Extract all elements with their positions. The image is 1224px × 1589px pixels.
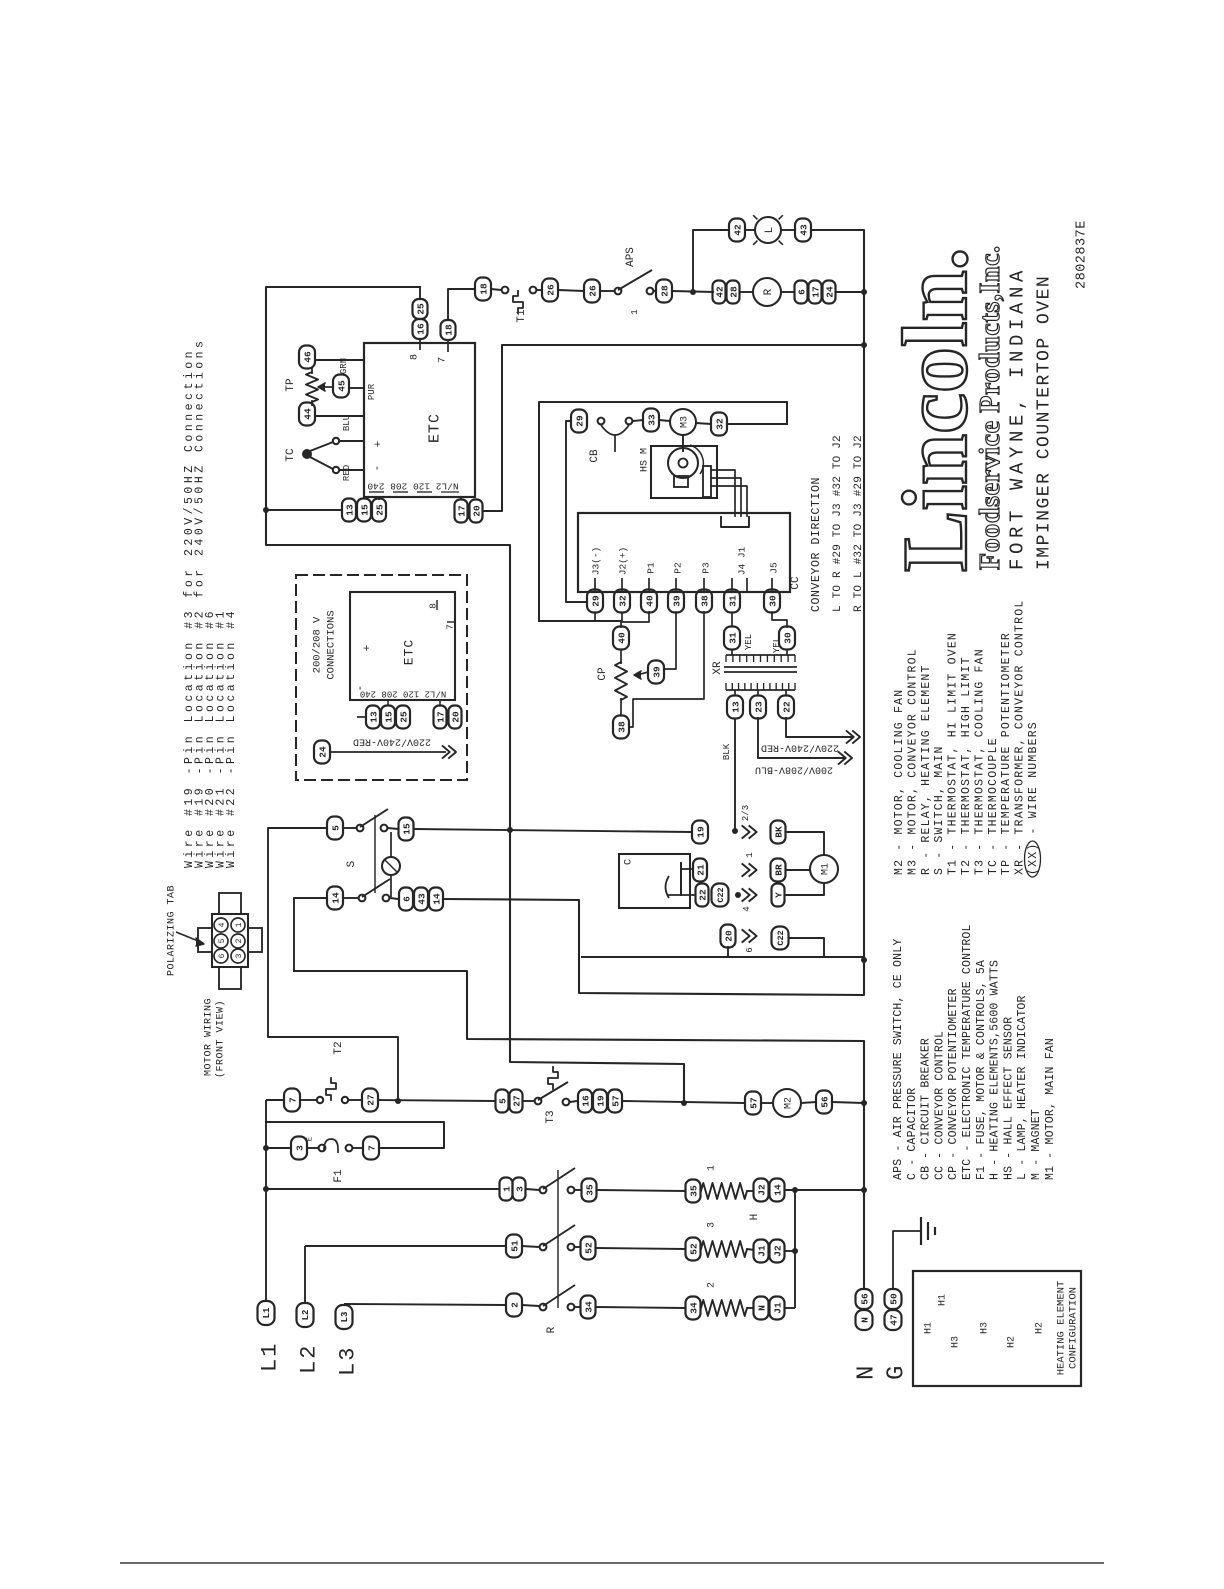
svg-text:P1: P1 (645, 562, 656, 574)
svg-text:17: 17 (435, 711, 446, 723)
svg-text:+: + (362, 645, 374, 652)
svg-text:M2 - MOTOR, COOLING FAN: M2 - MOTOR, COOLING FAN (893, 689, 906, 875)
svg-text:CP: CP (597, 667, 609, 681)
svg-text:3: 3 (707, 1222, 718, 1228)
svg-text:3: 3 (235, 953, 244, 958)
svg-text:J2: J2 (756, 1184, 767, 1196)
svg-text:GRN: GRN (339, 358, 349, 374)
svg-text:40: 40 (616, 632, 627, 644)
svg-text:200V/208V-BLU: 200V/208V-BLU (755, 763, 833, 775)
svg-text:L1: L1 (262, 1307, 272, 1318)
svg-text:20: 20 (450, 711, 461, 723)
svg-text:15: 15 (359, 504, 370, 516)
svg-text:R: R (546, 1326, 558, 1333)
svg-text:3: 3 (294, 1145, 305, 1151)
svg-text:14: 14 (772, 1184, 783, 1196)
svg-text:30: 30 (782, 632, 793, 644)
svg-text:17: 17 (456, 505, 467, 517)
svg-text:J1: J1 (756, 1245, 767, 1257)
svg-text:(FRONT VIEW): (FRONT VIEW) (215, 1000, 227, 1078)
svg-text:7: 7 (287, 1097, 298, 1103)
svg-text:N: N (756, 1305, 767, 1311)
svg-text:L TO R #29 TO J3 #32 TO J2: L TO R #29 TO J3 #32 TO J2 (832, 435, 844, 612)
svg-text:ETC: ETC (402, 639, 417, 665)
svg-text:XR - TRANSFORMER, CONVEYOR CON: XR - TRANSFORMER, CONVEYOR CONTROL (1014, 600, 1027, 875)
svg-text:H2: H2 (1007, 1336, 1018, 1348)
svg-text:RED: RED (342, 465, 352, 481)
svg-text:47: 47 (888, 1314, 899, 1326)
svg-text:ETC: ETC (426, 413, 443, 443)
svg-text:50: 50 (888, 1293, 899, 1305)
svg-text:43: 43 (416, 893, 427, 905)
svg-text:TC - THERMOCOUPLE: TC - THERMOCOUPLE (987, 737, 1000, 875)
svg-text:F1 - FUSE, MOTOR & CONTROLS,: F1 - FUSE, MOTOR & CONTROLS, 5A (975, 960, 988, 1180)
svg-text:35: 35 (584, 1184, 595, 1196)
svg-text:F1: F1 (333, 1169, 345, 1183)
svg-text:13: 13 (730, 701, 741, 713)
svg-text:BK: BK (773, 826, 784, 838)
svg-text:2: 2 (707, 1282, 718, 1288)
svg-text:39: 39 (671, 595, 682, 607)
svg-text:1: 1 (630, 309, 640, 314)
svg-text:14: 14 (330, 892, 341, 904)
svg-text:45: 45 (336, 380, 347, 392)
svg-text:34: 34 (688, 1302, 699, 1314)
svg-text:M3 - MOTOR, CONVEYOR CONTROL: M3 - MOTOR, CONVEYOR CONTROL (906, 648, 919, 875)
svg-text:42: 42 (714, 286, 725, 298)
svg-text:Y: Y (773, 892, 784, 898)
svg-text:1: 1 (501, 1186, 512, 1192)
svg-text:CC: CC (790, 576, 802, 590)
svg-text:23: 23 (753, 701, 764, 713)
svg-text:CB - CIRCUIT BREAKER: CB - CIRCUIT BREAKER (920, 1038, 933, 1180)
svg-text:L1: L1 (258, 1342, 283, 1372)
svg-text:19: 19 (695, 826, 706, 838)
svg-text:POLARIZING TAB: POLARIZING TAB (167, 885, 178, 976)
svg-text:YEL: YEL (772, 637, 782, 653)
svg-text:H3: H3 (951, 1336, 962, 1348)
svg-text:220V/240V-RED: 220V/240V-RED (353, 735, 431, 747)
svg-text:Foodservice Products,Inc.: Foodservice Products,Inc. (975, 245, 1006, 570)
svg-text:TP - TEMPERATURE POTENTIOMETER: TP - TEMPERATURE POTENTIOMETER (1000, 632, 1013, 875)
svg-text:200/208 V: 200/208 V (312, 616, 324, 673)
svg-text:P2: P2 (672, 562, 683, 574)
svg-text:L3: L3 (336, 1346, 361, 1376)
svg-text:J4 J1: J4 J1 (736, 546, 747, 575)
svg-text:M - MAGNET: M - MAGNET (1030, 1109, 1043, 1180)
svg-text:HEATING ELEMENT: HEATING ELEMENT (1056, 1281, 1068, 1376)
svg-text:P3: P3 (700, 562, 711, 574)
svg-text:YEL: YEL (744, 634, 754, 650)
svg-text:XR: XR (712, 661, 724, 675)
svg-text:N: N (859, 1317, 870, 1323)
svg-text:IMPINGER COUNTERTOP OVEN: IMPINGER COUNTERTOP OVEN (1034, 275, 1054, 570)
svg-text:19: 19 (595, 1095, 606, 1107)
svg-text:M3: M3 (680, 416, 691, 428)
svg-text:8: 8 (410, 354, 421, 360)
svg-text:7: 7 (366, 1145, 377, 1151)
svg-text:CP - CONVEYOR POTENTIOMETER: CP - CONVEYOR POTENTIOMETER (947, 988, 960, 1180)
svg-text:1: 1 (745, 852, 755, 857)
svg-text:T1 - THERMOSTAT, HI LIMIT OVEN: T1 - THERMOSTAT, HI LIMIT OVEN (947, 632, 960, 875)
svg-text:1: 1 (707, 1165, 718, 1171)
svg-text:29: 29 (590, 595, 601, 607)
svg-text:N: N (853, 1366, 880, 1380)
svg-text:R TO L #32 TO J3 #29 TO J2: R TO L #32 TO J3 #29 TO J2 (853, 435, 865, 612)
svg-text:S - SWITCH, MAIN: S - SWITCH, MAIN (933, 745, 946, 875)
svg-text:L: L (764, 227, 776, 234)
svg-text:26: 26 (545, 284, 556, 296)
svg-text:6: 6 (796, 289, 807, 295)
svg-text:27: 27 (511, 1095, 522, 1107)
svg-text:J2: J2 (772, 1245, 783, 1257)
svg-text:51: 51 (509, 1240, 520, 1252)
svg-text:J2(+): J2(+) (617, 547, 628, 576)
svg-text:43: 43 (798, 224, 809, 236)
svg-text:2802837E: 2802837E (1075, 220, 1090, 289)
svg-text:TP: TP (285, 378, 297, 392)
svg-text:M1: M1 (821, 863, 832, 875)
svg-text:22: 22 (697, 889, 708, 901)
svg-text:C22: C22 (776, 930, 786, 945)
svg-text:Wire #22 -Pin Location #4: Wire #22 -Pin Location #4 (225, 608, 238, 868)
svg-text:38: 38 (616, 721, 627, 733)
svg-text:18: 18 (443, 324, 454, 336)
svg-text:7: 7 (438, 357, 449, 363)
svg-text:24: 24 (317, 746, 328, 758)
svg-text:14: 14 (431, 893, 442, 905)
svg-text:+: + (373, 441, 385, 448)
svg-text:13: 13 (368, 711, 379, 723)
svg-text:(XX) - WIRE NUMBERS: (XX) - WIRE NUMBERS (1027, 721, 1040, 875)
svg-text:J5: J5 (768, 562, 779, 574)
svg-text:M1 - MOTOR, MAIN FAN: M1 - MOTOR, MAIN FAN (1044, 1038, 1057, 1180)
svg-text:C: C (624, 859, 635, 865)
svg-text:7: 7 (444, 624, 455, 630)
svg-text:R - RELAY, HEATING ELEMENT: R - RELAY, HEATING ELEMENT (920, 664, 933, 875)
svg-text:CONFIGURATION: CONFIGURATION (1068, 1287, 1080, 1369)
svg-text:L3: L3 (340, 1312, 350, 1323)
svg-text:BLU: BLU (342, 415, 352, 431)
svg-text:J1: J1 (772, 1302, 783, 1314)
svg-text:20: 20 (471, 505, 482, 517)
svg-text:H3: H3 (980, 1322, 991, 1334)
svg-text:E: E (306, 1137, 314, 1141)
svg-text:52: 52 (688, 1243, 699, 1255)
svg-text:21: 21 (695, 864, 706, 876)
svg-text:L - LAMP, HEATER INDICATOR: L - LAMP, HEATER INDICATOR (1016, 995, 1029, 1180)
svg-text:27: 27 (365, 1094, 376, 1106)
svg-text:-: - (372, 465, 384, 472)
svg-text:T3: T3 (545, 1110, 557, 1123)
svg-text:17: 17 (810, 286, 821, 298)
svg-text:6: 6 (745, 947, 755, 952)
svg-text:24: 24 (824, 286, 835, 298)
svg-text:Lincoln.: Lincoln. (884, 247, 986, 572)
svg-text:220V/240V-RED: 220V/240V-RED (761, 741, 839, 753)
svg-text:42: 42 (732, 224, 743, 236)
svg-text:46: 46 (302, 351, 313, 363)
svg-text:18: 18 (478, 283, 489, 295)
svg-text:M2: M2 (784, 1097, 795, 1109)
svg-text:32: 32 (617, 595, 628, 607)
svg-text:30: 30 (767, 595, 778, 607)
svg-text:N/L2 120 208 240: N/L2 120 208 240 (360, 689, 446, 699)
svg-text:CC - CONVEYOR CONTROL: CC - CONVEYOR CONTROL (933, 1031, 946, 1180)
svg-text:57: 57 (610, 1095, 621, 1107)
svg-text:T2 - THERMOSTAT, HIGH LIMIT: T2 - THERMOSTAT, HIGH LIMIT (960, 656, 973, 875)
svg-text:56: 56 (859, 1293, 870, 1305)
svg-text:28: 28 (728, 286, 739, 298)
svg-text:52: 52 (583, 1242, 594, 1254)
svg-text:PUR: PUR (367, 383, 377, 400)
svg-text:5: 5 (330, 825, 341, 831)
svg-text:T1: T1 (516, 309, 528, 323)
svg-text:G: G (883, 1366, 910, 1380)
svg-text:5: 5 (497, 1098, 508, 1104)
svg-text:HS M: HS M (640, 448, 651, 472)
svg-text:6: 6 (401, 896, 412, 902)
svg-text:16: 16 (415, 323, 426, 335)
svg-text:CONVEYOR DIRECTION: CONVEYOR DIRECTION (810, 477, 823, 612)
svg-text:R: R (763, 288, 775, 295)
svg-text:APS - AIR PRESSURE SWITCH, CE: APS - AIR PRESSURE SWITCH, CE ONLY (892, 939, 905, 1180)
svg-text:2: 2 (509, 1302, 520, 1308)
svg-text:20: 20 (723, 930, 734, 942)
svg-text:32: 32 (714, 418, 725, 430)
svg-text:15: 15 (383, 711, 394, 723)
svg-text:CB: CB (589, 449, 601, 463)
svg-text:2/3: 2/3 (741, 805, 751, 821)
svg-text:H1: H1 (938, 1294, 949, 1306)
svg-text:APS: APS (625, 247, 637, 267)
svg-text:35: 35 (688, 1185, 699, 1197)
svg-text:4: 4 (218, 922, 227, 927)
svg-text:L2: L2 (301, 1310, 311, 1321)
svg-text:J3(-): J3(-) (590, 547, 601, 576)
svg-text:5: 5 (218, 938, 227, 943)
svg-text:16: 16 (580, 1095, 591, 1107)
svg-text:HS - HALL EFFECT SENSOR: HS - HALL EFFECT SENSOR (1002, 1017, 1015, 1180)
svg-text:BLK: BLK (722, 743, 732, 760)
svg-text:T3 - THERMOSTAT, COOLING FAN: T3 - THERMOSTAT, COOLING FAN (973, 648, 986, 875)
svg-text:1: 1 (235, 922, 244, 927)
svg-text:S: S (346, 860, 358, 867)
svg-text:ETC - ELECTRONIC TEMPERATURE C: ETC - ELECTRONIC TEMPERATURE CONTROL (961, 924, 974, 1180)
svg-text:C - CAPACITOR: C - CAPACITOR (906, 1088, 919, 1180)
svg-text:40: 40 (644, 595, 655, 607)
svg-text:L2: L2 (297, 1344, 322, 1374)
svg-text:31: 31 (727, 632, 738, 644)
svg-text:25: 25 (398, 711, 409, 723)
svg-text:4: 4 (742, 906, 752, 911)
svg-text:6: 6 (218, 953, 227, 958)
svg-text:29: 29 (574, 415, 585, 427)
svg-text:56: 56 (819, 1096, 830, 1108)
svg-text:FORT WAYNE, INDIANA: FORT WAYNE, INDIANA (1007, 266, 1029, 570)
svg-text:34: 34 (583, 1301, 594, 1313)
svg-text:38: 38 (699, 595, 710, 607)
svg-text:31: 31 (727, 595, 738, 607)
svg-text:28: 28 (659, 285, 670, 297)
svg-text:N/L2 120 208 240: N/L2 120 208 240 (367, 481, 459, 492)
svg-text:H1: H1 (924, 1322, 935, 1334)
svg-text:44: 44 (302, 408, 313, 420)
svg-text:TC: TC (285, 448, 297, 462)
svg-text:25: 25 (374, 504, 385, 516)
svg-text:15: 15 (401, 823, 412, 835)
svg-text:26: 26 (587, 285, 598, 297)
svg-text:H: H (749, 1214, 761, 1221)
svg-text:CONNECTIONS: CONNECTIONS (326, 610, 338, 679)
svg-text:57: 57 (748, 1097, 759, 1109)
svg-text:33: 33 (646, 414, 657, 426)
svg-text:2: 2 (235, 938, 244, 943)
svg-text:MOTOR WIRING: MOTOR WIRING (204, 998, 215, 1076)
svg-text:39: 39 (651, 666, 662, 678)
svg-text:22: 22 (781, 701, 792, 713)
svg-text:T2: T2 (333, 1041, 345, 1054)
svg-text:13: 13 (344, 504, 355, 516)
svg-text:BR: BR (773, 864, 784, 876)
svg-text:C22: C22 (716, 887, 726, 902)
svg-text:25: 25 (415, 303, 426, 315)
svg-text:3: 3 (514, 1186, 525, 1192)
svg-text:H - HEATING ELEMENTS,5600 WA: H - HEATING ELEMENTS,5600 WATTS (989, 960, 1002, 1180)
svg-text:H2: H2 (1035, 1322, 1046, 1334)
